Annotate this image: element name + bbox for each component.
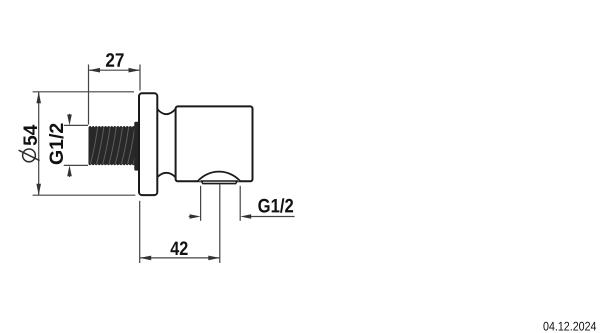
dimension 42 (wall to outlet axis) [140, 201, 220, 263]
dimension G1/2 (inlet thread, rotated) [64, 114, 88, 177]
main body block [176, 106, 253, 181]
svg-text:54: 54 [20, 125, 42, 146]
outlet centreline [219, 185, 221, 264]
svg-text:42: 42 [170, 238, 188, 260]
seal collar between thread and flange [134, 122, 138, 171]
neck groove between flange and body [157, 109, 175, 177]
threaded inlet pipe G1/2 (hatched) [88, 126, 138, 165]
svg-text:G1/2: G1/2 [46, 123, 68, 165]
dimension G1/2 (outlet thread) [189, 186, 295, 221]
svg-text:04.12.2024: 04.12.2024 [543, 319, 597, 333]
svg-text:27: 27 [105, 50, 124, 72]
svg-text:G1/2: G1/2 [258, 195, 294, 217]
outlet dome [198, 172, 241, 182]
wall flange (escutcheon) [139, 93, 157, 195]
diameter symbol [19, 149, 40, 162]
dimension dia 54 (flange diameter) [33, 92, 136, 195]
dimension 27 (wall to flange face) [89, 65, 141, 125]
outlet face band [200, 180, 238, 184]
